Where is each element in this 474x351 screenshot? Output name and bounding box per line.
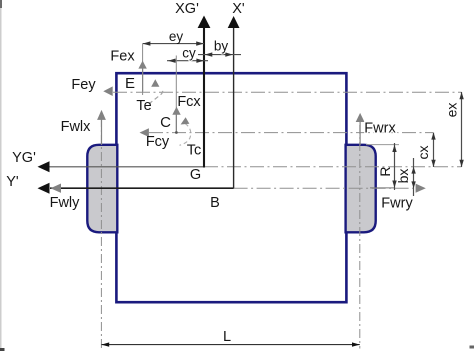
svg-text:ey: ey (169, 29, 184, 44)
right wheel (346, 145, 376, 233)
svg-text:Fwly: Fwly (50, 195, 81, 211)
force arrow Fwry (416, 184, 426, 193)
body rectangle (vehicle frame) (116, 73, 346, 302)
axis YG' arrowhead (38, 161, 50, 172)
dimension L line (101, 344, 359, 346)
dimension by line (198, 54, 241, 56)
force arrow Fcx (172, 107, 180, 115)
left wheel (87, 145, 117, 233)
YG axis extension right of G (204, 166, 462, 168)
torque arc Te (149, 90, 163, 105)
axis Y' line (50, 187, 234, 189)
dimension cy line (167, 60, 208, 62)
torque arc Tc (180, 124, 191, 146)
dimension ex line (461, 92, 463, 167)
axis XG' line (203, 28, 205, 168)
force arrow Fwrx (356, 113, 365, 122)
svg-text:ex: ex (444, 103, 460, 118)
svg-text:E: E (125, 75, 135, 92)
svg-text:B: B (210, 195, 220, 211)
svg-text:cy: cy (182, 46, 196, 61)
right wheel centerline (359, 125, 361, 349)
node C horizontal reference line (149, 132, 433, 134)
node E vertical extension line / Fex shaft (142, 44, 144, 95)
axis X' line (233, 28, 235, 189)
svg-text:Fwry: Fwry (381, 196, 413, 212)
dimension ey line (143, 43, 204, 45)
svg-text:Tc: Tc (187, 143, 202, 159)
node E horizontal reference line (113, 91, 462, 93)
page left edge scan line (0, 0, 2, 351)
svg-text:Fwlx: Fwlx (61, 119, 92, 135)
svg-text:Fex: Fex (110, 49, 135, 65)
svg-text:Te: Te (136, 98, 151, 114)
svg-text:C: C (160, 114, 171, 131)
svg-text:Y': Y' (6, 174, 19, 190)
svg-text:cx: cx (415, 146, 431, 160)
axis XG' arrowhead (198, 16, 211, 29)
Y axis extension right of B (234, 187, 414, 189)
dimension R line (394, 143, 396, 190)
svg-text:Fcy: Fcy (146, 134, 170, 150)
axis Y' arrowhead (38, 183, 50, 194)
svg-text:L: L (223, 329, 231, 345)
svg-text:YG': YG' (12, 150, 36, 166)
Y' level tick left of R (370, 187, 394, 189)
svg-text:R: R (377, 166, 393, 176)
svg-text:G: G (190, 167, 201, 183)
svg-text:XG': XG' (175, 1, 199, 17)
svg-text:Fcx: Fcx (177, 94, 201, 110)
dimension bx line (413, 158, 415, 196)
force arrow Fwlx (97, 110, 106, 120)
force arrow Fcy (140, 128, 149, 137)
node C vertical extension line / Fcx shaft (175, 56, 177, 133)
left wheel centerline (100, 118, 102, 349)
svg-text:Fwrx: Fwrx (364, 121, 396, 137)
bottom-left scan speck (0, 348, 5, 351)
dimension cx line (433, 133, 435, 167)
bottom-right scan speck (470, 346, 474, 349)
svg-text:bx: bx (395, 169, 411, 184)
svg-text:by: by (214, 39, 229, 54)
node C junction dot (175, 131, 178, 134)
force arrow Fwly (51, 184, 62, 193)
axis X' arrowhead (228, 16, 240, 28)
force arrow Fey (103, 86, 112, 96)
axis YG' line (49, 166, 204, 168)
force arrow Fex (138, 61, 146, 69)
svg-text:Fey: Fey (71, 77, 96, 93)
wheel top reference line (right) (366, 144, 399, 146)
svg-text:X': X' (232, 1, 245, 17)
